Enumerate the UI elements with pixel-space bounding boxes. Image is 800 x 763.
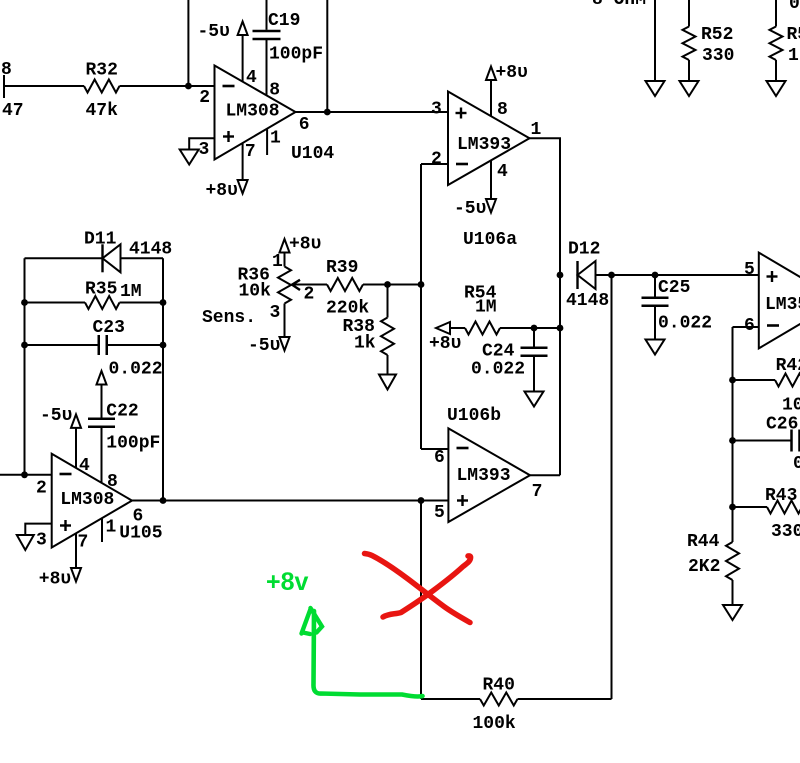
svg-text:C19: C19	[268, 11, 300, 31]
svg-text:7: 7	[532, 482, 543, 502]
svg-text:LM393: LM393	[457, 135, 511, 155]
power -5v arrow (R36 bottom)	[280, 337, 290, 351]
wire junction up to top edge	[326, 0, 328, 112]
junction node D12 right	[608, 272, 615, 279]
svg-text:0.022: 0.022	[109, 360, 163, 380]
threshold bus vertical (pin2 to pin6)	[420, 164, 422, 449]
svg-text:-5υ: -5υ	[198, 22, 230, 42]
svg-text:2K2: 2K2	[688, 557, 720, 577]
pin 1 stub U104	[266, 129, 268, 155]
svg-text:8: 8	[107, 472, 118, 492]
svg-text:3: 3	[270, 303, 281, 323]
svg-text:5: 5	[744, 260, 755, 280]
svg-text:220k: 220k	[326, 299, 369, 319]
pin 7 wire U104	[242, 143, 244, 180]
node pin 8 stub (left edge input)	[3, 75, 5, 98]
ground symbol	[646, 81, 665, 96]
ground symbol (R44)	[723, 605, 742, 620]
wire U106b pin7 output	[530, 474, 560, 476]
svg-text:8: 8	[497, 100, 508, 120]
power -5v arrow (U104 pin 4)	[238, 22, 248, 36]
resistor R44	[726, 542, 739, 580]
svg-text:+8v: +8v	[266, 568, 309, 596]
diode D11	[101, 244, 103, 272]
svg-text:4: 4	[246, 68, 257, 88]
svg-text:Sens.: Sens.	[202, 308, 256, 328]
op-amp U107 LM358 (clipped right)	[744, 253, 800, 349]
svg-text:U105: U105	[119, 524, 162, 544]
svg-text:R35: R35	[85, 280, 117, 300]
svg-text:1: 1	[106, 518, 117, 538]
wire bottom horizontal to R40	[421, 698, 480, 700]
resistor R40	[480, 693, 518, 706]
ground symbol (R38)	[379, 375, 396, 390]
wire wiper to R39	[293, 284, 328, 286]
minus input	[767, 324, 779, 327]
resistor R42 (clipped)	[733, 379, 776, 381]
power +8v arrow (U106a pin 8)	[486, 67, 496, 81]
svg-text:4148: 4148	[566, 291, 609, 311]
pin 3 ground stub U105	[25, 524, 51, 535]
svg-text:C26: C26	[766, 415, 798, 435]
junction node R39/bus	[418, 281, 425, 288]
capacitor C25	[654, 275, 656, 297]
diode D12	[576, 261, 578, 289]
svg-text:-5υ: -5υ	[40, 406, 72, 426]
svg-text:0.022: 0.022	[658, 314, 712, 334]
pin 6 wire U106b	[421, 448, 448, 450]
ground symbol (U105 pin 3)	[17, 535, 34, 550]
svg-text:-5υ: -5υ	[248, 336, 280, 356]
power +8v arrow (U105 pin 7)	[71, 568, 81, 582]
pin 4 wire U106a	[490, 160, 492, 198]
plus input	[767, 275, 778, 277]
power +8v arrow (R36 top)	[280, 239, 290, 253]
ground symbol (C24)	[525, 392, 544, 407]
minus input	[60, 473, 72, 476]
svg-text:1: 1	[270, 129, 281, 149]
svg-text:-5υ: -5υ	[454, 199, 486, 219]
wire D12 to C25 to pin5	[596, 274, 759, 276]
svg-text:R40: R40	[483, 676, 515, 696]
svg-text:8: 8	[269, 80, 280, 100]
svg-text:C24: C24	[482, 342, 515, 362]
wire U106a pin1 output	[530, 138, 561, 475]
svg-text:+8υ: +8υ	[429, 334, 461, 354]
svg-text:0.022: 0.022	[471, 360, 525, 380]
wire U105 output to U106b pin5	[132, 500, 448, 502]
svg-text:6: 6	[434, 448, 445, 468]
diode D11 wire	[25, 257, 103, 259]
svg-text:R43: R43	[765, 486, 797, 506]
wire pin5 node down	[420, 501, 422, 700]
svg-text:3: 3	[199, 140, 210, 160]
wire feedback left vertical	[24, 258, 26, 475]
ground symbol (C25)	[646, 340, 665, 355]
plus input	[223, 135, 234, 137]
svg-text:R42: R42	[776, 356, 800, 376]
junction node U105 output	[160, 497, 167, 504]
svg-text:C23: C23	[93, 318, 125, 338]
pin 2 wire U105	[0, 474, 52, 476]
potentiometer R36	[284, 253, 286, 267]
svg-text:2: 2	[304, 285, 315, 305]
svg-text:4148: 4148	[129, 240, 172, 260]
svg-text:1k: 1k	[354, 334, 376, 354]
resistor R39	[327, 278, 363, 291]
ground symbol (U104 pin 3)	[180, 150, 199, 165]
wire R32 to U104 pin2	[120, 85, 215, 87]
pin 8 wire U106a	[490, 80, 492, 116]
svg-text:+8υ: +8υ	[496, 63, 528, 83]
wire U104 output to U106a pin3	[296, 111, 449, 113]
resistor R53 (clipped right)	[775, 0, 777, 27]
capacitor C19	[266, 0, 268, 30]
svg-text:47k: 47k	[86, 101, 119, 121]
capacitor C26 (clipped)	[733, 440, 792, 442]
op-amp U106a LM393	[431, 92, 542, 251]
wire feedback right vertical	[162, 258, 164, 500]
annotation red X stroke 1	[365, 554, 471, 623]
junction nodes R35	[21, 299, 28, 306]
resistor R35	[25, 302, 86, 304]
pin 5 wire junction	[418, 497, 425, 504]
op-amp U105 LM308	[36, 454, 163, 553]
pin 2 wire U106a	[421, 163, 448, 165]
svg-text:1M: 1M	[475, 298, 497, 318]
svg-text:0: 0	[789, 0, 800, 14]
svg-text:+8υ: +8υ	[206, 181, 238, 201]
junction node R38 top	[384, 281, 391, 288]
pin 6 wire U107	[733, 326, 759, 328]
resistor R43 (clipped)	[733, 506, 768, 508]
annotation red X stroke 2	[383, 556, 471, 617]
svg-text:4: 4	[497, 162, 508, 182]
junction node R32/top wire	[185, 83, 192, 90]
svg-text:C25: C25	[658, 278, 690, 298]
junction node C25	[652, 272, 659, 279]
pot wiper arrow	[292, 280, 300, 290]
ground symbol (R53)	[767, 81, 786, 96]
svg-text:D12: D12	[568, 240, 600, 260]
svg-text:8: 8	[1, 60, 12, 80]
wire R39 to bus	[363, 284, 421, 286]
svg-text:+8υ: +8υ	[39, 570, 71, 590]
wire pin4 U104	[242, 36, 244, 82]
op-amp U106b LM393	[434, 428, 542, 523]
svg-text:LM308: LM308	[226, 102, 280, 122]
plus input	[60, 524, 71, 526]
svg-text:C22: C22	[106, 402, 138, 422]
power -5v arrow (U106a pin 4)	[486, 199, 496, 213]
svg-text:4: 4	[79, 456, 90, 476]
power +8v arrow (R54 left)	[436, 322, 450, 334]
op-amp U104 LM308	[199, 66, 335, 165]
svg-text:3: 3	[431, 100, 442, 120]
svg-text:1M: 1M	[120, 282, 142, 302]
junction node D12/output bus	[557, 272, 564, 279]
svg-text:100pF: 100pF	[106, 434, 160, 454]
wire input to R32	[4, 85, 84, 87]
svg-text:LM358: LM358	[765, 295, 800, 315]
power -5v arrow (U105 pin 4)	[71, 414, 81, 428]
svg-text:2: 2	[431, 150, 442, 170]
plus input	[456, 112, 467, 114]
junction nodes C23	[21, 342, 28, 349]
resistor R52	[688, 0, 690, 27]
svg-text:100k: 100k	[473, 714, 516, 734]
svg-text:U106a: U106a	[463, 230, 517, 250]
power +8v arrow (U104 pin 7)	[238, 180, 248, 194]
resistor R38	[387, 285, 389, 318]
resistor R32	[84, 80, 120, 93]
minus input	[457, 447, 469, 450]
minus input	[456, 163, 468, 166]
svg-text:7: 7	[78, 533, 89, 553]
svg-text:330: 330	[702, 46, 734, 66]
wire C19 to U104 pin8	[266, 40, 268, 95]
svg-text:U106b: U106b	[447, 406, 501, 426]
wire junction up to top edge	[187, 0, 189, 86]
svg-text:10k: 10k	[239, 282, 272, 302]
svg-text:330k: 330k	[771, 522, 800, 542]
svg-text:1k: 1k	[788, 46, 800, 66]
junction node R54/output bus	[557, 325, 564, 332]
svg-text:2: 2	[36, 479, 47, 499]
svg-text:7: 7	[245, 142, 256, 162]
svg-text:1: 1	[272, 252, 283, 272]
svg-text:R44: R44	[687, 532, 720, 552]
capacitor C23	[25, 344, 99, 346]
svg-text:100pF: 100pF	[269, 45, 323, 65]
wire to ground (top right)	[654, 0, 656, 81]
svg-text:R53: R53	[787, 25, 800, 45]
svg-text:LM308: LM308	[60, 490, 114, 510]
svg-text:0.022: 0.022	[793, 454, 800, 474]
svg-text:D11: D11	[84, 230, 117, 250]
capacitor C24	[533, 328, 535, 347]
capacitor C22	[101, 385, 103, 418]
wire right vertical up to D12 node	[611, 275, 613, 699]
svg-text:R39: R39	[326, 258, 358, 278]
junction node R43	[729, 504, 736, 511]
svg-text:100k: 100k	[782, 396, 800, 416]
pin 1 stub U105	[101, 518, 103, 542]
wire R40 to right vertical	[518, 698, 612, 700]
resistor R54	[450, 327, 465, 329]
junction node R42	[729, 377, 736, 384]
junction node C26	[729, 437, 736, 444]
svg-text:+8υ: +8υ	[289, 235, 321, 255]
svg-text:R52: R52	[701, 25, 733, 45]
plus input	[457, 499, 468, 501]
pin 3 ground stub U104	[189, 138, 214, 149]
junction node feedback/pin2	[21, 471, 28, 478]
svg-text:2: 2	[199, 88, 210, 108]
svg-text:8 OHM: 8 OHM	[592, 0, 646, 10]
pin 4 wire U105	[75, 428, 77, 468]
svg-text:R32: R32	[86, 61, 118, 81]
svg-text:1: 1	[531, 120, 542, 140]
svg-text:LM393: LM393	[457, 466, 511, 486]
svg-text:6: 6	[299, 115, 310, 135]
wire feedback bus right opamp	[732, 327, 734, 542]
annotation green arrow	[313, 611, 422, 697]
svg-text:5: 5	[434, 503, 445, 523]
net arrow above C22	[97, 371, 107, 385]
svg-text:U104: U104	[291, 144, 334, 164]
junction node C24 top	[531, 325, 538, 332]
svg-text:3: 3	[36, 531, 47, 551]
pin 7 wire U105	[75, 533, 77, 568]
svg-text:47: 47	[2, 101, 24, 121]
junction node output/top bus	[324, 109, 331, 116]
minus input	[223, 85, 235, 88]
ground symbol (R52)	[680, 81, 699, 96]
